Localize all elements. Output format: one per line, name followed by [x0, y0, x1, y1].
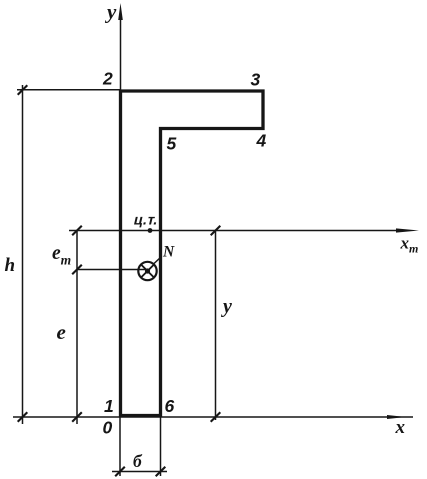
svg-text:h: h	[5, 255, 16, 276]
svg-text:4: 4	[256, 131, 267, 151]
svg-text:N: N	[162, 244, 175, 261]
svg-text:1: 1	[104, 396, 114, 416]
svg-text:0: 0	[103, 418, 113, 438]
svg-text:y: y	[221, 296, 232, 318]
svg-text:3: 3	[251, 70, 261, 90]
svg-text:5: 5	[167, 134, 177, 154]
svg-text:ц.т.: ц.т.	[132, 213, 160, 229]
svg-text:e: e	[57, 320, 66, 344]
svg-text:2: 2	[102, 69, 113, 89]
svg-text:6: 6	[165, 396, 175, 416]
svg-text:x: x	[395, 417, 406, 438]
svg-text:б: б	[133, 451, 143, 471]
